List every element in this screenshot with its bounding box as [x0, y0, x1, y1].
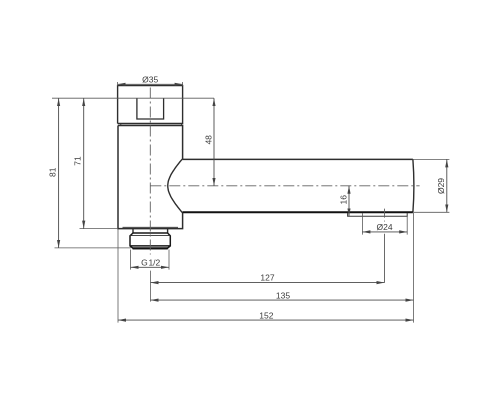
- svg-text:48: 48: [204, 135, 214, 145]
- dim 135: [151, 299, 414, 301]
- dim dia35: [118, 83, 183, 85]
- svg-text:135: 135: [276, 290, 290, 300]
- dim 48: [213, 98, 215, 186]
- vertical centerline of body: [149, 88, 151, 255]
- G1/2 extension lines: [131, 250, 170, 270]
- thread relief lines: [130, 235, 170, 237]
- dim 16: [348, 186, 350, 217]
- spout top line: [183, 158, 413, 160]
- spout-body junction curve: [168, 159, 183, 212]
- G1/2 thread body: [130, 233, 170, 249]
- collar below body: [133, 229, 168, 233]
- dim dia24: [362, 231, 407, 233]
- right extension line (spout end): [413, 213, 415, 323]
- top reference extension line: [52, 97, 214, 99]
- 152 left extension line: [117, 229, 119, 322]
- dim dia29: [446, 159, 448, 212]
- body: [118, 126, 183, 229]
- 71 bottom extension line: [80, 228, 119, 230]
- svg-text:Ø24: Ø24: [377, 222, 393, 232]
- svg-text:Ø29: Ø29: [436, 178, 446, 194]
- dim 81: [58, 98, 60, 248]
- dia35 extension lines: [118, 82, 183, 86]
- spout end arc: [413, 159, 414, 212]
- valve stem inner rectangle: [137, 98, 164, 119]
- dim 71: [83, 98, 85, 228]
- aerator ring: [348, 213, 408, 216]
- dia24 extension lines: [362, 213, 407, 235]
- svg-text:16: 16: [339, 195, 349, 205]
- cap (top of body): [118, 86, 183, 124]
- outlet centerline: [384, 209, 386, 222]
- horizontal centerline of spout: [150, 185, 419, 187]
- svg-text:152: 152: [259, 311, 273, 321]
- dim G1/2: [131, 266, 170, 268]
- dia29 extension lines: [413, 159, 450, 212]
- dim 152: [118, 319, 414, 321]
- 81 bottom extension line: [55, 247, 132, 249]
- svg-text:Ø35: Ø35: [142, 74, 158, 84]
- svg-text:71: 71: [72, 156, 82, 166]
- dim 127: [151, 282, 385, 284]
- svg-text:81: 81: [47, 167, 57, 177]
- svg-text:G 1/2: G 1/2: [141, 258, 160, 268]
- thread bottom bold edge: [133, 247, 168, 249]
- body centerline bottom extension: [150, 271, 152, 302]
- spout bottom line: [183, 211, 413, 213]
- body bottom chamfer line: [123, 226, 179, 228]
- cap bottom rim ticks: [121, 124, 182, 126]
- svg-text:127: 127: [260, 273, 274, 283]
